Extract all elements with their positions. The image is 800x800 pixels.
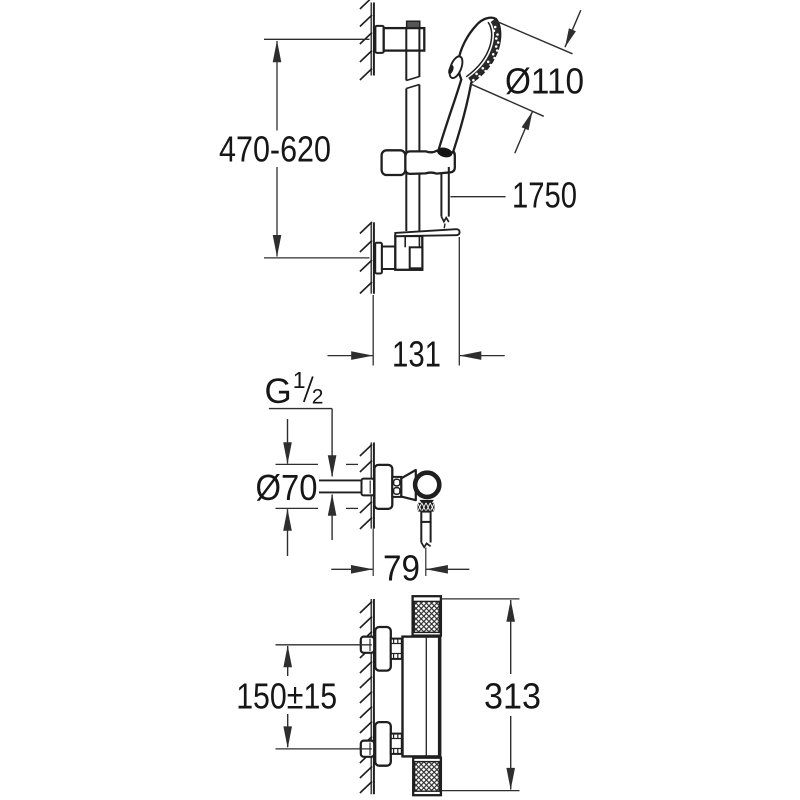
svg-text:150±15: 150±15 (236, 676, 337, 717)
valve outlet knurled nut (418, 503, 435, 512)
shower rail lower segment (405, 174, 407, 232)
thermostat top union nut (391, 639, 402, 659)
dimension Ø110 upper arrow (565, 10, 581, 47)
dimension 150±15 vertical line (287, 646, 289, 676)
thermostat body right edge (438, 638, 440, 756)
spray nozzle white specks (494, 26, 497, 29)
dimension Ø110 lower arrow (515, 111, 533, 153)
thermostat top escutcheon (375, 627, 391, 671)
shower hose (440, 174, 442, 217)
dimension 150±15 arrows (283, 645, 292, 667)
wall line (lower bracket) (370, 222, 372, 293)
valve hose stub (420, 522, 422, 543)
dimension Ø70 lower arrow (287, 509, 289, 556)
shower rail middle segment (405, 89, 407, 153)
hose centerline (425, 548, 427, 577)
hose connector (421, 512, 430, 522)
lower bracket escutcheon (375, 243, 382, 274)
dimension 79 left arrow (331, 568, 372, 570)
supply pipe G 1/2 (319, 479, 362, 481)
dimension Ø110 upper extension line (496, 21, 572, 54)
dimension 131 right arrow (459, 355, 504, 357)
shower head button ring (447, 55, 465, 80)
dimension 313 top extension line (442, 598, 520, 600)
svg-text:313: 313 (484, 676, 541, 717)
dimension Ø110 lower extension line (470, 84, 544, 117)
dimension 313 vertical line (510, 600, 512, 674)
svg-text:470-620: 470-620 (219, 129, 331, 170)
wall hatching (lower bracket) (360, 222, 372, 234)
thermostat bottom escutcheon (375, 722, 391, 766)
valve lever ring (415, 473, 439, 497)
soap dish shelf (395, 229, 459, 236)
thermostat bottom handle (413, 758, 441, 796)
hose break mark (441, 217, 448, 222)
dimension 470-620 bottom arrow (273, 235, 282, 257)
dimension 470-620 bottom extension line (264, 257, 370, 259)
wall hatching (valve) (360, 445, 372, 457)
dimension 313 bottom extension line (442, 790, 520, 792)
lower bracket body (395, 236, 422, 270)
G 1/2 up arrow (331, 495, 333, 541)
svg-text:Ø70: Ø70 (256, 467, 318, 508)
slider holder body (405, 149, 455, 174)
dimension 131 left arrow (328, 355, 374, 357)
G 1/2 leader line (269, 408, 332, 410)
valve outlet neck (420, 500, 434, 503)
svg-text:1: 1 (293, 367, 306, 393)
svg-text:131: 131 (392, 334, 441, 375)
svg-text:2: 2 (312, 386, 324, 409)
dimension Ø70 upper extent line (276, 463, 319, 465)
wall line (thermostat) (370, 599, 372, 794)
rail break (406, 77, 419, 81)
shower rail upper segment (405, 28, 407, 81)
thermostat top supply hex (361, 637, 374, 653)
valve hose break (421, 543, 430, 548)
dimension 313 arrows (506, 600, 515, 622)
svg-text:Ø110: Ø110 (505, 61, 584, 102)
top bracket escutcheon (375, 26, 383, 53)
lower bracket knob (410, 247, 423, 268)
G 1/2 down arrow (331, 457, 333, 476)
thermostat top handle (413, 596, 441, 635)
thermostat body inner line (425, 638, 427, 756)
shower head button nub (447, 64, 455, 75)
thermostat bottom supply hex (361, 741, 374, 757)
dimension 79 left extension line (372, 529, 374, 576)
svg-text:G: G (265, 372, 292, 411)
handle inlet cone (436, 146, 453, 159)
spray nozzle band (470, 20, 497, 80)
rail top cap (407, 21, 420, 28)
hand shower head outline (439, 18, 501, 153)
thermostat bottom union nut (391, 734, 402, 754)
dimension 131 left extension line (372, 295, 374, 366)
dimension 150 top extension line (276, 644, 372, 646)
valve escutcheon (374, 465, 392, 509)
wall line (valve) (370, 443, 372, 529)
dimension 470-620 vertical line (276, 41, 278, 131)
dimension Ø70 upper arrow (287, 419, 289, 464)
wall hatching (top bracket) (360, 0, 372, 9)
dimension 470-620 top extension line (264, 38, 370, 40)
slider lock knob (382, 150, 406, 175)
thermostat body (403, 637, 441, 757)
dimension 79 right arrow (426, 568, 470, 570)
top bracket body (384, 28, 425, 50)
valve supply hex nut (362, 479, 375, 496)
dimension Ø70 lower extent line (276, 507, 319, 509)
hose length leader line (450, 196, 505, 198)
svg-text:1750: 1750 (512, 175, 577, 216)
dimension 131 right extension line (458, 237, 460, 366)
valve body cone (401, 470, 416, 500)
lower bracket rail slot (404, 237, 406, 248)
wall line (top bracket) (370, 3, 372, 76)
wall hatching (thermostat) (360, 602, 372, 614)
lower bracket arm (382, 247, 395, 270)
dimension 470-620 top arrow (273, 40, 282, 62)
face plate inner line (466, 22, 492, 77)
svg-text:79: 79 (383, 547, 420, 588)
valve connector (392, 477, 401, 497)
dimension 150 bottom extension line (276, 748, 372, 750)
